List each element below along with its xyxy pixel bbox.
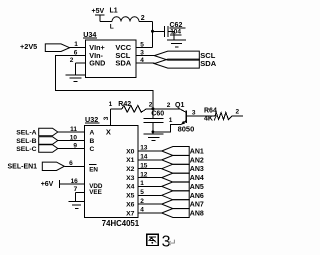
svg-text:SEL-EN1: SEL-EN1	[8, 164, 38, 171]
svg-text:U32: U32	[85, 115, 98, 124]
U32 pin 14 (X1)	[126, 154, 162, 165]
U32 pin 2 (X6)	[126, 198, 162, 209]
port SEL-A	[16, 128, 58, 136]
svg-text:4: 4	[140, 207, 144, 214]
svg-text:SDA: SDA	[115, 59, 131, 68]
svg-text:Q1: Q1	[175, 102, 184, 109]
svg-text:3: 3	[192, 109, 196, 116]
junction emitter-ground	[152, 130, 155, 133]
power +5V	[92, 8, 105, 21]
svg-text:X0: X0	[126, 148, 135, 155]
junction node 2	[151, 107, 154, 110]
port AN1	[162, 147, 204, 156]
pin 6 label	[74, 50, 78, 57]
resistor R64 (4K7)	[204, 107, 243, 122]
svg-text:+6V: +6V	[41, 181, 54, 188]
caption figure 3	[147, 233, 177, 250]
port AN8	[162, 209, 204, 218]
wire U32 pin3 to node 1	[109, 101, 113, 125]
U32 pin 11 (A)	[58, 126, 95, 137]
svg-text:AN5: AN5	[190, 184, 204, 191]
svg-text:L1: L1	[110, 8, 118, 15]
svg-text:AN7: AN7	[190, 202, 204, 209]
svg-text:AN2: AN2	[190, 157, 204, 164]
svg-text:16: 16	[71, 178, 79, 185]
port SEL-EN1	[8, 162, 65, 171]
svg-text:R42: R42	[118, 101, 131, 108]
pin 2 label	[70, 57, 74, 64]
svg-text:2: 2	[70, 57, 74, 64]
port SDA	[154, 59, 216, 68]
svg-text:15: 15	[140, 162, 148, 169]
svg-text:AN4: AN4	[190, 175, 204, 182]
svg-text:AN8: AN8	[190, 211, 204, 218]
svg-text:4K7: 4K7	[204, 116, 217, 123]
svg-text:L: L	[110, 24, 114, 31]
svg-text:SDA: SDA	[200, 59, 216, 68]
inductor L1	[100, 8, 139, 31]
ground (C62)	[167, 40, 186, 47]
svg-text:B: B	[90, 138, 95, 145]
svg-text:X1: X1	[126, 157, 135, 164]
svg-text:X: X	[106, 128, 111, 137]
port SEL-C	[16, 145, 58, 153]
svg-text:SEL-A: SEL-A	[16, 129, 36, 136]
svg-text:3: 3	[103, 116, 110, 120]
U32 pin 16 (VDD)	[60, 178, 103, 190]
svg-text:A: A	[90, 130, 95, 137]
U34 pin names right	[115, 43, 131, 68]
port AN2	[162, 155, 204, 164]
op-amp U34 box and label	[83, 30, 136, 78]
svg-text:13: 13	[140, 145, 148, 152]
svg-text:1: 1	[109, 101, 113, 108]
U32 pin 5 (X5)	[126, 189, 162, 200]
U32 pin 7 (VEE)	[74, 186, 102, 201]
svg-text:4: 4	[140, 57, 144, 64]
svg-text:X6: X6	[126, 201, 135, 208]
U34 pin names left	[89, 43, 105, 68]
wire pin4 SDA	[136, 57, 154, 64]
svg-text:SEL-B: SEL-B	[16, 138, 36, 145]
svg-text:SEL-C: SEL-C	[16, 146, 36, 153]
wire L1 to VCC node	[139, 15, 153, 47]
svg-text:VEE: VEE	[89, 189, 102, 196]
svg-text:74HC4051: 74HC4051	[102, 219, 140, 228]
port AN4	[162, 173, 204, 182]
svg-text:X7: X7	[126, 210, 135, 217]
svg-text:EN: EN	[89, 166, 98, 173]
capacitor C62 (104)	[153, 22, 186, 40]
svg-text:7: 7	[74, 186, 78, 193]
ground (VEE)	[69, 202, 85, 209]
port AN6	[162, 191, 204, 200]
svg-text:AN3: AN3	[190, 166, 204, 173]
svg-text:2: 2	[167, 102, 171, 109]
wire +2V5 to pin1	[70, 41, 86, 48]
transistor Q1 (8050)	[153, 109, 215, 132]
svg-text:R64: R64	[204, 107, 217, 114]
port AN3	[162, 164, 204, 173]
wire pin3 SCL	[136, 49, 154, 56]
svg-text:12: 12	[140, 171, 148, 178]
port SEL-B	[16, 137, 58, 145]
U32 X pin name	[106, 128, 111, 137]
ground (U34)	[66, 75, 86, 82]
svg-text:U34: U34	[83, 30, 96, 39]
mux U32 box and label	[85, 115, 139, 218]
svg-text:2: 2	[141, 15, 145, 22]
svg-text:8050: 8050	[178, 125, 195, 134]
U32 pin 13 (X0)	[126, 145, 162, 156]
svg-text:2: 2	[236, 109, 240, 116]
svg-text:1: 1	[140, 180, 144, 187]
svg-text:AN6: AN6	[190, 193, 204, 200]
svg-text:X4: X4	[126, 184, 135, 191]
U32 pin 15 (X2)	[126, 162, 162, 173]
svg-text:5: 5	[140, 189, 144, 196]
U32 pin 4 (X7)	[126, 207, 162, 218]
U32 part number	[102, 219, 140, 228]
svg-text:C60: C60	[151, 111, 164, 118]
wire pin5 VCC	[136, 41, 152, 48]
power +6V	[41, 180, 60, 188]
U32 pin 12 (X3)	[126, 171, 162, 182]
svg-text:1: 1	[74, 41, 78, 48]
svg-text:AN1: AN1	[190, 149, 204, 156]
capacitor C60	[143, 109, 164, 134]
port AN5	[162, 182, 204, 191]
U32 pin 10 (B)	[58, 134, 95, 145]
svg-text:6: 6	[69, 160, 73, 167]
svg-text:3: 3	[140, 49, 144, 56]
port AN7	[162, 200, 204, 209]
U32 pin 3 rotated label	[103, 116, 110, 120]
svg-text:2: 2	[140, 198, 144, 205]
junction node VCC/C62	[151, 30, 154, 33]
svg-text:+5V: +5V	[92, 8, 105, 15]
svg-text:5: 5	[140, 41, 144, 48]
U32 pin 9 (C)	[58, 142, 95, 153]
port +2V5	[20, 42, 70, 51]
U32 pin 1 (X4)	[126, 180, 162, 191]
svg-text:↵: ↵	[168, 237, 177, 249]
U32 pin 6 (EN)	[64, 160, 98, 173]
svg-text:X5: X5	[126, 193, 135, 200]
svg-text:X2: X2	[126, 166, 135, 173]
svg-text:GND: GND	[89, 59, 105, 68]
resistor R42	[111, 101, 153, 112]
svg-text:C: C	[90, 146, 95, 153]
wire GND pin2	[76, 63, 86, 75]
svg-text:14: 14	[140, 154, 148, 161]
svg-text:+2V5: +2V5	[20, 42, 37, 51]
svg-text:1: 1	[169, 117, 173, 124]
wire Vin- wrap to node2	[56, 56, 153, 109]
port SCL	[154, 51, 215, 60]
Q1 labels	[167, 102, 196, 133]
svg-text:X3: X3	[126, 175, 135, 182]
ground (C60)	[144, 134, 164, 141]
